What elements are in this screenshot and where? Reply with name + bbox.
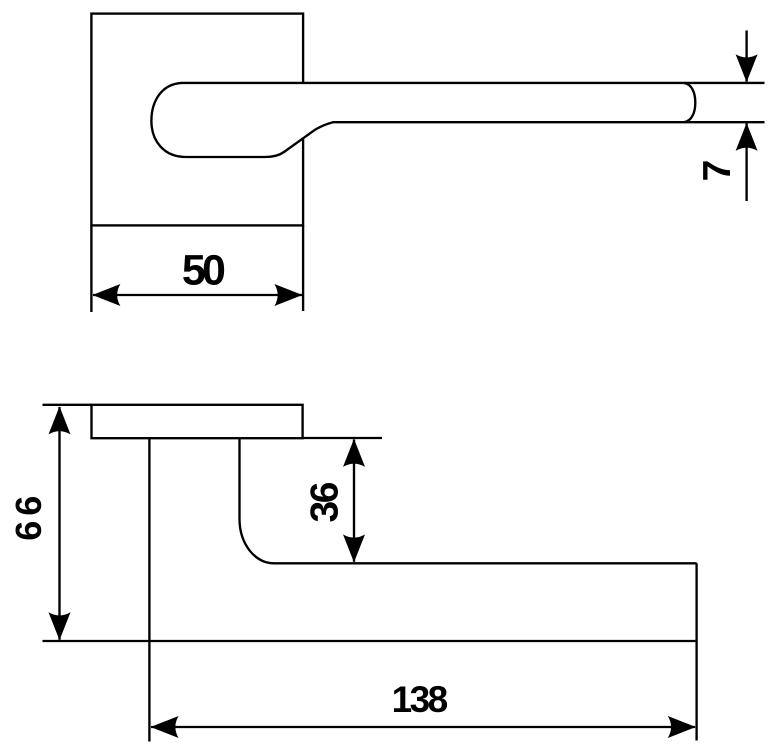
extension line (36 dim) bbox=[303, 437, 382, 439]
arrowhead 7 pointing up bbox=[736, 123, 758, 151]
arrowhead 138 pointing right bbox=[668, 716, 696, 738]
dimension line 7 lower segment bbox=[745, 123, 747, 201]
svg-text:7: 7 bbox=[696, 160, 739, 182]
arrowhead 50 pointing left bbox=[92, 284, 120, 306]
arrowhead 66 pointing up bbox=[49, 406, 71, 434]
extension line bottom (7 dim) bbox=[684, 121, 765, 123]
dimension line 7 upper segment bbox=[745, 31, 747, 82]
square rose plate (top view) bbox=[91, 14, 303, 226]
dimension line 138 bbox=[151, 726, 695, 728]
lever bottom line (side view) + left extension for 66 bbox=[43, 640, 697, 642]
extension line top (66 dim) bbox=[43, 404, 92, 406]
arrowhead 66 pointing down bbox=[49, 612, 71, 640]
lever right edge (side view) + extension line for 138 bbox=[695, 563, 697, 740]
dimension line 66 bbox=[58, 407, 60, 640]
rose plate (side view) bbox=[92, 405, 303, 438]
arrowhead 7 pointing down bbox=[736, 54, 758, 82]
lever handle outline (top view) bbox=[151, 83, 695, 157]
arrowhead 50 pointing right bbox=[274, 284, 302, 306]
extension line right (50 dim) bbox=[302, 225, 304, 311]
svg-text:138: 138 bbox=[392, 679, 449, 720]
arrowhead 138 pointing left bbox=[151, 716, 179, 738]
extension line top (7 dim) bbox=[684, 82, 765, 84]
svg-text:50: 50 bbox=[182, 246, 226, 294]
handle neck left edge (side view) + extension line for 138 bbox=[148, 438, 150, 742]
dimension line 50 bbox=[93, 294, 302, 296]
extension line left (50 dim) bbox=[90, 225, 92, 312]
svg-text:36: 36 bbox=[304, 482, 347, 523]
arrowhead 36 pointing up bbox=[343, 439, 365, 467]
svg-text:66: 66 bbox=[8, 496, 49, 541]
dimension line 36 bbox=[353, 440, 355, 562]
arrowhead 36 pointing down bbox=[343, 534, 365, 562]
handle neck right edge and lever top (side view) bbox=[240, 438, 697, 563]
